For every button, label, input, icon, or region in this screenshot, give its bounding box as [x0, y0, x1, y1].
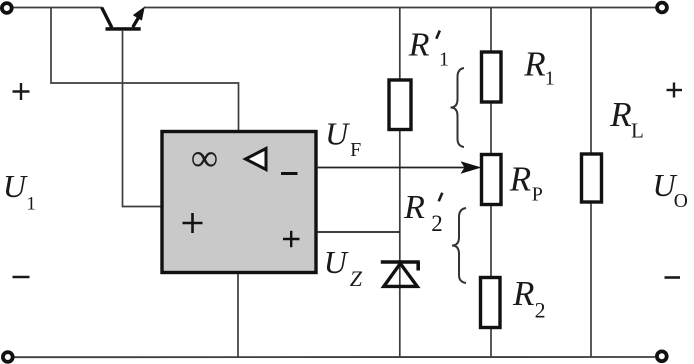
- resistor RL: [582, 154, 602, 202]
- wire top-right: [144, 7, 656, 9]
- svg-text:P: P: [532, 184, 543, 206]
- label minus left: [13, 276, 30, 279]
- wire top-left: [13, 7, 102, 9]
- terminal bottom-right: [657, 351, 667, 361]
- svg-text:R: R: [523, 44, 545, 83]
- svg-text:U: U: [325, 116, 350, 152]
- potentiometer RP: [482, 155, 502, 205]
- svg-text:U: U: [3, 168, 28, 204]
- svg-text:1: 1: [439, 49, 449, 71]
- wire sampling column: [490, 8, 492, 358]
- svg-text:Z: Z: [350, 266, 363, 291]
- svg-text:L: L: [631, 118, 644, 142]
- wire reference column: [399, 8, 401, 358]
- wire op-amp bottom to ground: [237, 273, 239, 358]
- terminal bottom-left: [3, 352, 13, 362]
- svg-text:F: F: [350, 139, 361, 161]
- wire base lead to op-amp left: [123, 31, 163, 207]
- svg-text:2: 2: [535, 298, 546, 323]
- transistor Q1: [102, 7, 145, 31]
- svg-text:R: R: [609, 95, 631, 134]
- svg-text:R: R: [403, 189, 425, 226]
- svg-text:R: R: [408, 27, 430, 64]
- svg-text:U: U: [324, 244, 349, 280]
- label plus left: [13, 83, 30, 100]
- brace upper: [451, 68, 465, 147]
- op-amp U1: [162, 132, 316, 273]
- wire branch input to op-amp top: [51, 8, 239, 132]
- resistor R'1: [389, 80, 411, 130]
- svg-text:O: O: [674, 191, 688, 212]
- zener diode Dz: [381, 262, 420, 286]
- svg-text:∞: ∞: [191, 138, 218, 180]
- terminal top-right: [657, 3, 667, 13]
- wire bottom: [14, 356, 655, 358]
- wire op-amp plus input to zener node: [317, 231, 400, 233]
- svg-text:1: 1: [545, 68, 555, 90]
- svg-text:R: R: [512, 274, 534, 313]
- wire load column: [590, 8, 592, 358]
- terminal top-left: [2, 3, 12, 13]
- svg-text:1: 1: [26, 193, 36, 214]
- svg-text:2: 2: [431, 211, 443, 236]
- svg-text:R: R: [509, 159, 531, 198]
- label plus right: [667, 83, 683, 98]
- brace lower: [452, 208, 466, 283]
- resistor R2: [481, 278, 501, 328]
- label minus right: [665, 276, 681, 279]
- wire UF arrow to potentiometer: [317, 161, 482, 174]
- resistor R1: [482, 52, 502, 102]
